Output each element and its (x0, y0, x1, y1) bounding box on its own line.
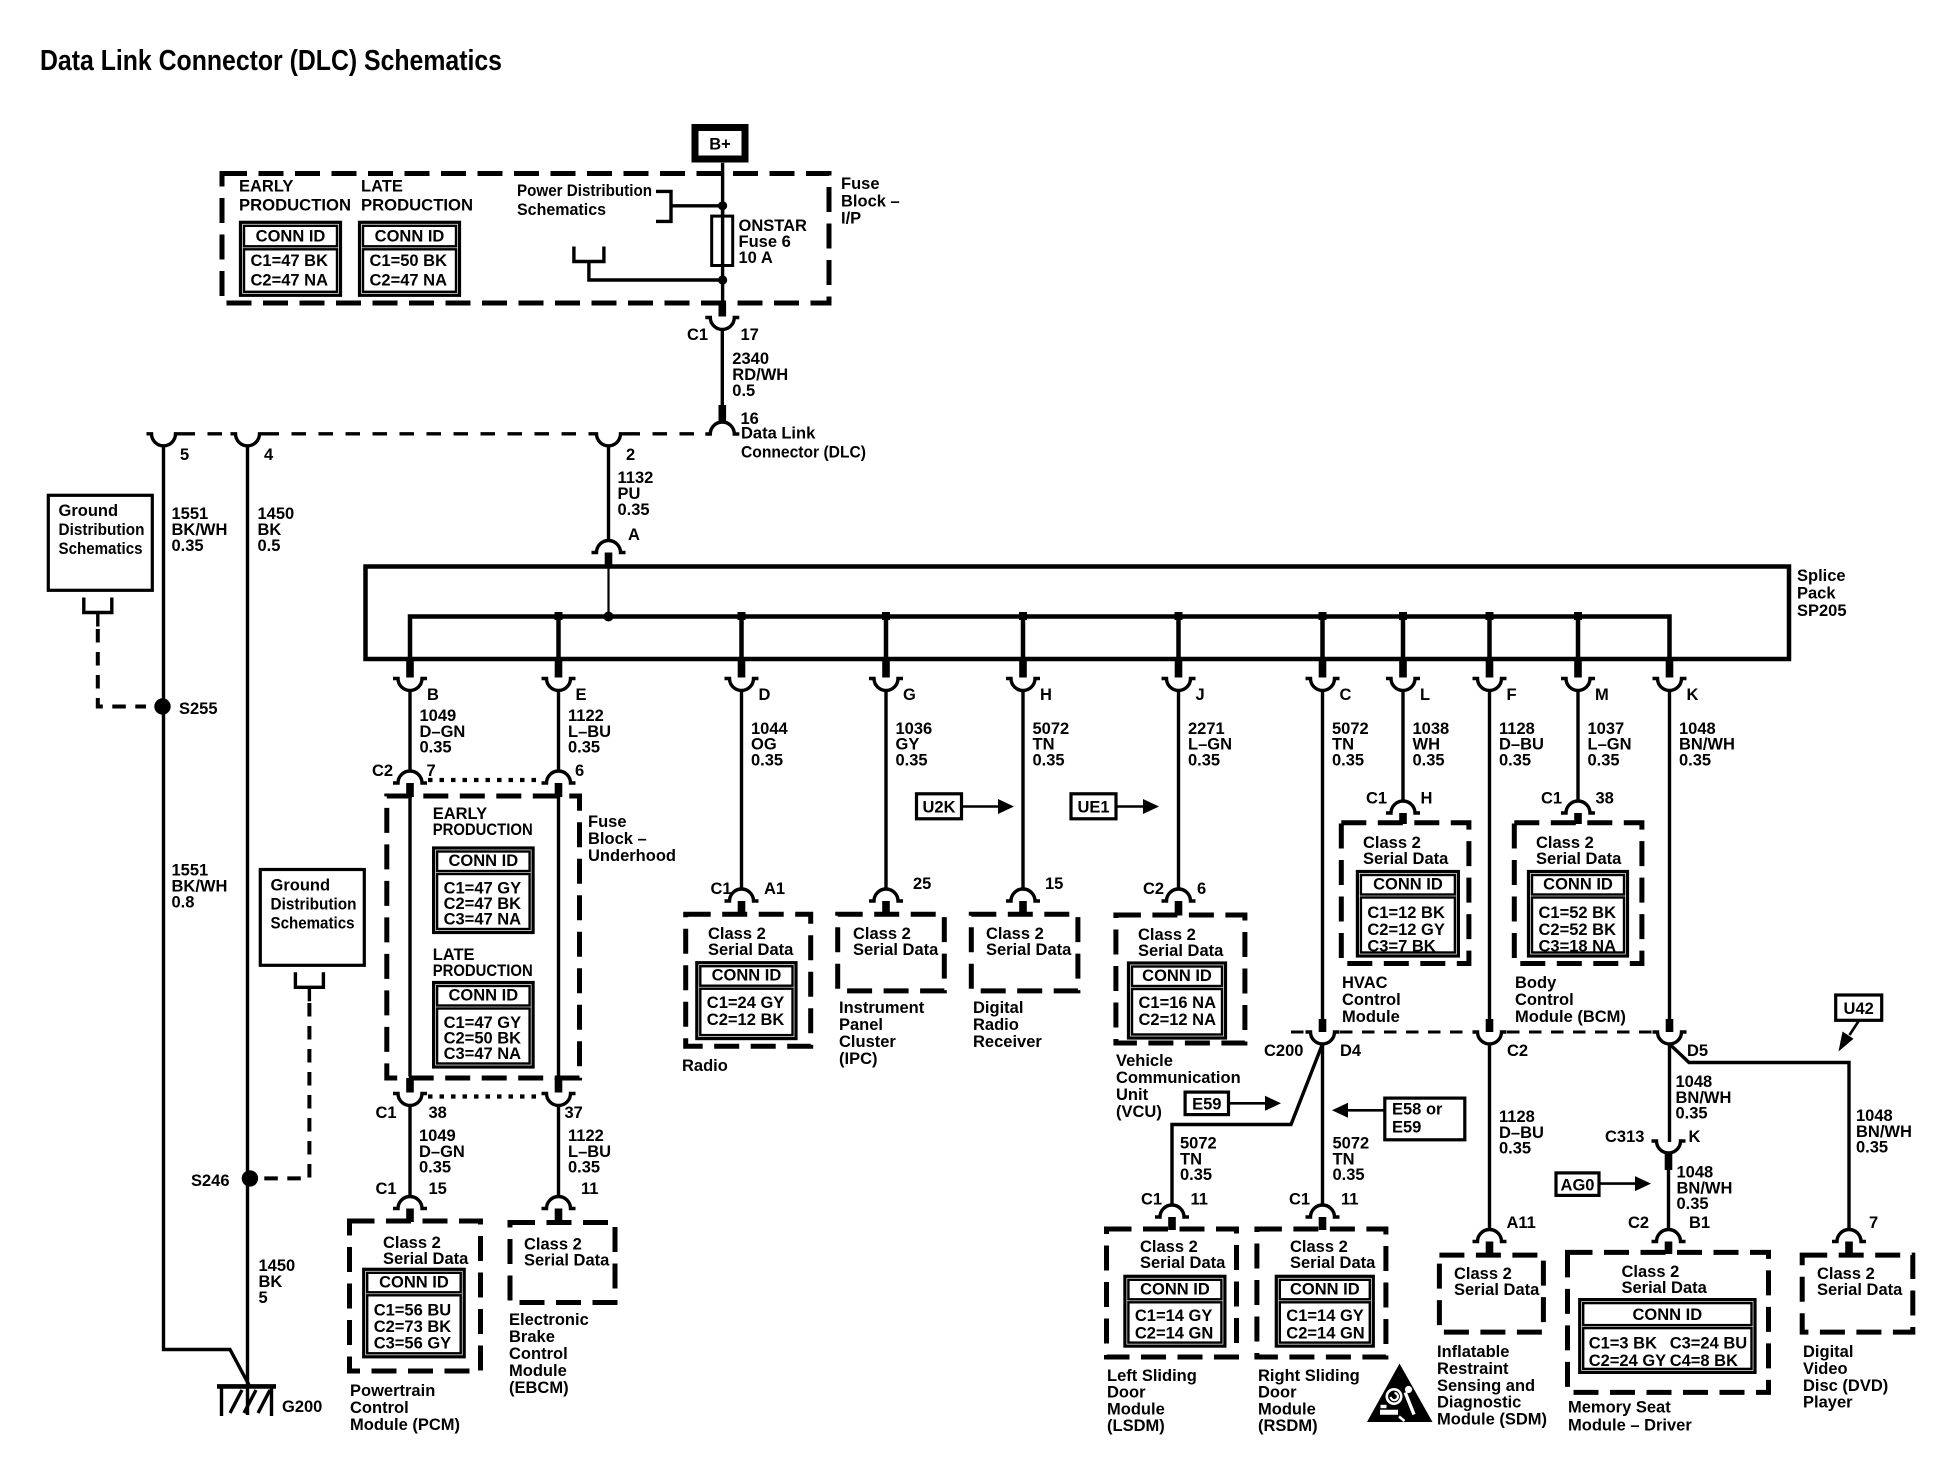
splice pack terminal H (1021, 617, 1026, 660)
svg-text:Disc (DVD): Disc (DVD) (1803, 1377, 1888, 1395)
svg-text:D4: D4 (1340, 1042, 1362, 1060)
svg-text:Module: Module (1342, 1008, 1400, 1026)
off-page bracket (power distribution) (656, 191, 671, 221)
svg-text:Radio: Radio (682, 1057, 728, 1075)
svg-text:Unit: Unit (1116, 1086, 1149, 1104)
svg-text:Cluster: Cluster (839, 1033, 896, 1051)
splice S255 (154, 698, 170, 714)
svg-text:Serial Data: Serial Data (1290, 1254, 1376, 1272)
splice pack bus (410, 617, 1670, 660)
svg-text:0.35: 0.35 (1180, 1166, 1212, 1184)
svg-text:C1=14 GY: C1=14 GY (1135, 1307, 1213, 1325)
connector C1 11 (LSDM) (1155, 1205, 1189, 1217)
svg-text:0.35: 0.35 (1677, 1195, 1709, 1213)
svg-text:Panel: Panel (839, 1016, 883, 1034)
connector A (splice pack) (592, 541, 626, 553)
svg-text:C1: C1 (1141, 1191, 1162, 1209)
svg-text:E58 or: E58 or (1392, 1101, 1443, 1119)
svg-text:B1: B1 (1689, 1214, 1710, 1232)
fuse block I/P dashed box (222, 174, 829, 304)
svg-text:PRODUCTION: PRODUCTION (433, 821, 533, 839)
svg-text:0.35: 0.35 (1188, 751, 1220, 769)
LSDM class 2 serial data box (1107, 1229, 1237, 1357)
svg-text:0.35: 0.35 (1679, 751, 1711, 769)
svg-text:C2=12 BK: C2=12 BK (707, 1011, 785, 1029)
svg-text:D: D (759, 686, 771, 704)
connector pin 6 (fuse block underhood) (542, 771, 576, 783)
svg-text:S255: S255 (179, 700, 218, 718)
wire F down between boxes (1488, 691, 1491, 1020)
svg-text:E: E (576, 686, 587, 704)
connector C2 pin 7 (fuse block underhood) (393, 771, 427, 783)
svg-text:Serial Data: Serial Data (853, 941, 939, 959)
A stub into bus (607, 567, 609, 617)
svg-text:C1=14 GY: C1=14 GY (1286, 1307, 1364, 1325)
svg-text:Inflatable: Inflatable (1437, 1343, 1509, 1361)
svg-text:AG0: AG0 (1561, 1176, 1595, 1194)
svg-text:C3=47 NA: C3=47 NA (444, 910, 522, 928)
svg-text:F: F (1507, 686, 1517, 704)
svg-text:(RSDM): (RSDM) (1258, 1417, 1318, 1435)
svg-text:Distribution: Distribution (59, 521, 145, 539)
svg-text:Right Sliding: Right Sliding (1258, 1367, 1360, 1385)
svg-text:C2=47 NA: C2=47 NA (251, 272, 329, 290)
svg-text:0.5: 0.5 (258, 537, 281, 555)
svg-text:C3=7 BK: C3=7 BK (1367, 938, 1435, 956)
svg-text:Module: Module (1258, 1400, 1316, 1418)
wire 1551 BK/WH 0.35 (pin 5) (164, 446, 250, 1385)
svg-text:(VCU): (VCU) (1116, 1103, 1162, 1121)
svg-text:HVAC: HVAC (1342, 974, 1388, 992)
svg-text:0.35: 0.35 (568, 739, 600, 757)
svg-text:PRODUCTION: PRODUCTION (361, 197, 473, 215)
wire H to DRR (1021, 691, 1024, 890)
svg-text:4: 4 (264, 446, 274, 464)
svg-text:C313: C313 (1605, 1128, 1644, 1146)
E59 reference box and arrow (1185, 1092, 1228, 1115)
svg-text:Door: Door (1258, 1384, 1297, 1402)
svg-text:C1=24 GY: C1=24 GY (707, 994, 785, 1012)
connector A11 (SDM) (1473, 1230, 1507, 1242)
svg-text:Restraint: Restraint (1437, 1360, 1509, 1378)
svg-text:Schematics: Schematics (517, 201, 606, 219)
connector C2 (SDM drop) (1486, 1019, 1494, 1032)
svg-text:CONN ID: CONN ID (712, 967, 782, 985)
svg-text:C2: C2 (1628, 1214, 1649, 1232)
svg-text:0.35: 0.35 (419, 1159, 451, 1177)
svg-text:B: B (427, 686, 439, 704)
svg-text:K: K (1689, 1128, 1701, 1146)
CONN ID table (LSDM) (1125, 1276, 1225, 1346)
svg-text:0.5: 0.5 (732, 382, 755, 400)
svg-text:Player: Player (1803, 1394, 1853, 1412)
splice S246 (242, 1170, 258, 1186)
svg-text:Control: Control (509, 1345, 568, 1363)
wire K down (1668, 691, 1671, 1020)
svg-text:Fuse: Fuse (588, 813, 627, 831)
svg-text:0.35: 0.35 (1499, 1140, 1531, 1158)
splice pack terminal D (739, 617, 744, 660)
off-page bracket under box (295, 972, 323, 987)
svg-text:CONN ID: CONN ID (1290, 1280, 1360, 1298)
svg-text:17: 17 (741, 326, 759, 344)
connector C200 D4 (1319, 1019, 1327, 1032)
svg-text:0.35: 0.35 (1856, 1139, 1888, 1157)
EBCM class 2 serial data box (510, 1223, 615, 1303)
svg-text:C2: C2 (1507, 1042, 1528, 1060)
svg-text:CONN ID: CONN ID (1142, 967, 1212, 985)
svg-text:Module: Module (509, 1362, 567, 1380)
splice pack terminal J (1176, 617, 1181, 660)
svg-text:H: H (1040, 686, 1052, 704)
svg-text:Vehicle: Vehicle (1116, 1052, 1173, 1070)
wire 1450 BK 0.5 (pin 4) (246, 446, 249, 1386)
svg-text:CONN ID: CONN ID (1140, 1280, 1210, 1298)
svg-text:Underhood: Underhood (588, 847, 676, 865)
svg-text:C1=47 BK: C1=47 BK (251, 252, 329, 270)
svg-text:Fuse: Fuse (841, 175, 880, 193)
DLC pin 4 (231, 434, 265, 446)
splice pack terminal B (406, 659, 414, 678)
svg-text:E59: E59 (1392, 1119, 1421, 1137)
svg-text:Serial Data: Serial Data (708, 941, 794, 959)
svg-text:Body: Body (1515, 974, 1557, 992)
svg-text:Schematics: Schematics (271, 915, 355, 933)
wire C to C200-D4 (1321, 691, 1324, 1020)
svg-text:0.35: 0.35 (1332, 751, 1364, 769)
junction dot (718, 275, 727, 284)
wire 1048 BN/WH 0.35 (D5 to C313) (1668, 1044, 1671, 1142)
svg-text:C3=24 BU: C3=24 BU (1670, 1335, 1748, 1353)
svg-text:Diagnostic: Diagnostic (1437, 1394, 1521, 1412)
svg-text:H: H (1421, 790, 1433, 808)
svg-text:C1: C1 (1289, 1191, 1310, 1209)
svg-text:Module (SDM): Module (SDM) (1437, 1411, 1547, 1429)
svg-text:Serial Data: Serial Data (383, 1250, 469, 1268)
svg-text:Serial Data: Serial Data (524, 1252, 610, 1270)
DRR class 2 serial data box (971, 914, 1078, 991)
wire bracket to fuse top (671, 204, 723, 207)
svg-text:C1=12 BK: C1=12 BK (1367, 904, 1445, 922)
connector pin 37 (underhood out) (555, 1078, 563, 1093)
svg-text:A: A (628, 526, 640, 544)
svg-text:C1: C1 (1366, 790, 1387, 808)
svg-text:C1=16 NA: C1=16 NA (1139, 994, 1217, 1012)
connector pin 7 (DVD) (1832, 1230, 1866, 1242)
connector C1 A1 (radio) (725, 889, 759, 901)
svg-text:C1=52 BK: C1=52 BK (1539, 904, 1617, 922)
svg-text:Communication: Communication (1116, 1069, 1241, 1087)
svg-text:C: C (1340, 686, 1352, 704)
svg-text:Serial Data: Serial Data (986, 941, 1072, 959)
DLC connector dashed line (181, 432, 231, 435)
svg-text:U2K: U2K (922, 799, 955, 817)
splice pack terminal M (1576, 617, 1581, 660)
svg-text:0.35: 0.35 (1413, 751, 1445, 769)
RSDM class 2 serial data box (1257, 1229, 1386, 1357)
wire B+ to fuse (721, 163, 724, 217)
U2K reference box and arrow (917, 794, 962, 819)
ground distribution schematics box (lower) (260, 870, 364, 966)
svg-text:C1=3 BK: C1=3 BK (1589, 1335, 1657, 1353)
svg-text:A1: A1 (764, 880, 785, 898)
connector C2 pin 6 (VCU) (1162, 889, 1196, 901)
svg-text:Module (PCM): Module (PCM) (350, 1416, 460, 1434)
svg-text:Schematics: Schematics (59, 540, 143, 558)
svg-text:C1: C1 (711, 880, 732, 898)
svg-text:CONN ID: CONN ID (449, 852, 519, 870)
svg-text:Serial Data: Serial Data (1817, 1281, 1903, 1299)
svg-text:C2=12 GY: C2=12 GY (1367, 921, 1445, 939)
svg-text:0.35: 0.35 (1676, 1105, 1708, 1123)
svg-text:Radio: Radio (973, 1016, 1019, 1034)
svg-text:C1=56 BU: C1=56 BU (374, 1302, 452, 1320)
splice pack terminal G (884, 617, 889, 660)
svg-text:11: 11 (1191, 1191, 1208, 1209)
svg-text:2: 2 (626, 446, 635, 464)
svg-text:(EBCM): (EBCM) (509, 1379, 569, 1397)
connector face C2 dotted line (428, 778, 540, 782)
svg-text:0.35: 0.35 (751, 751, 783, 769)
svg-text:C3=56 GY: C3=56 GY (374, 1334, 452, 1352)
svg-text:Brake: Brake (509, 1328, 555, 1346)
wire 2340 RD/WH 0.5 (721, 330, 724, 424)
svg-text:Control: Control (350, 1399, 409, 1417)
splice pack SP205 box (366, 567, 1790, 660)
svg-text:A11: A11 (1507, 1214, 1536, 1232)
svg-text:Control: Control (1515, 991, 1574, 1009)
svg-text:Door: Door (1107, 1384, 1146, 1402)
svg-text:EARLY: EARLY (239, 178, 293, 196)
svg-text:S246: S246 (191, 1172, 230, 1190)
svg-text:LATE: LATE (361, 178, 403, 196)
DVD class 2 serial data box (1802, 1255, 1913, 1332)
svg-text:J: J (1196, 686, 1205, 704)
power node B+ (695, 128, 745, 160)
splice pack terminal L (1401, 617, 1406, 660)
svg-text:7: 7 (427, 762, 436, 780)
svg-text:C1: C1 (1541, 790, 1562, 808)
svg-text:C2: C2 (372, 762, 393, 780)
svg-text:6: 6 (575, 762, 584, 780)
svg-text:Module – Driver: Module – Driver (1568, 1417, 1692, 1435)
SDM class 2 serial data box (1439, 1255, 1543, 1332)
wire B to C2-7 (408, 691, 411, 772)
svg-text:Block –: Block – (841, 192, 900, 210)
svg-text:C3=18 NA: C3=18 NA (1539, 938, 1617, 956)
svg-text:Video: Video (1803, 1360, 1848, 1378)
CONN ID table (VCU) (1129, 963, 1226, 1038)
CONN ID table (early production, underhood) (434, 848, 533, 933)
svg-text:B+: B+ (709, 136, 731, 154)
CONN ID table (memory seat) (1580, 1300, 1755, 1373)
svg-text:0.35: 0.35 (420, 739, 452, 757)
svg-text:Serial Data: Serial Data (1363, 850, 1449, 868)
connector C2 B1 (memory seat) (1652, 1230, 1686, 1242)
svg-text:5: 5 (180, 446, 189, 464)
svg-text:C2: C2 (1143, 880, 1164, 898)
connector C1 pin 17 (719, 303, 727, 317)
off-page bracket under box (84, 598, 112, 613)
svg-text:Electronic: Electronic (509, 1311, 589, 1329)
svg-text:C2=52 BK: C2=52 BK (1539, 921, 1617, 939)
connector pin 25 (IPC) (869, 889, 903, 901)
svg-text:M: M (1595, 686, 1609, 704)
svg-text:C2=24 GY: C2=24 GY (1589, 1352, 1667, 1370)
svg-text:G200: G200 (282, 1398, 322, 1416)
BCM class 2 serial data box (1514, 823, 1642, 964)
svg-text:E59: E59 (1192, 1096, 1221, 1114)
wire 1132 PU 0.35 (607, 446, 610, 541)
wire 5072 TN 0.35 (to LSDM) (1172, 1044, 1323, 1205)
svg-text:5: 5 (259, 1289, 268, 1307)
wire G to IPC (884, 691, 887, 890)
splice pack terminal F (1487, 617, 1492, 660)
svg-text:CONN ID: CONN ID (256, 227, 326, 245)
svg-text:CONN ID: CONN ID (379, 1273, 449, 1291)
CONN ID table (radio) (697, 963, 796, 1039)
svg-text:11: 11 (1341, 1191, 1358, 1209)
svg-text:C1: C1 (376, 1180, 397, 1198)
svg-text:38: 38 (429, 1104, 447, 1122)
svg-text:Digital: Digital (973, 999, 1023, 1017)
IPC class 2 serial data box (838, 914, 945, 991)
AG0 reference box and arrow (1556, 1173, 1599, 1196)
svg-text:C1=50 BK: C1=50 BK (370, 252, 448, 270)
svg-text:SP205: SP205 (1797, 602, 1847, 620)
svg-text:Digital: Digital (1803, 1343, 1853, 1361)
connector C1 pin 38 (underhood out) (406, 1078, 414, 1093)
svg-text:C1: C1 (376, 1104, 397, 1122)
svg-text:CONN ID: CONN ID (1543, 876, 1613, 894)
svg-text:Serial Data: Serial Data (1536, 850, 1622, 868)
svg-text:Connector (DLC): Connector (DLC) (741, 444, 866, 462)
svg-text:15: 15 (429, 1180, 447, 1198)
PCM class 2 serial data box (350, 1221, 481, 1371)
ground G200 (217, 1384, 276, 1389)
svg-text:(LSDM): (LSDM) (1107, 1417, 1165, 1435)
svg-text:Splice: Splice (1797, 567, 1846, 585)
svg-text:C2=12 NA: C2=12 NA (1139, 1011, 1217, 1029)
svg-text:15: 15 (1045, 875, 1063, 893)
svg-text:C3=47 NA: C3=47 NA (444, 1045, 522, 1063)
wire 1122 L-BU 0.35 (to EBCM) (557, 1106, 560, 1197)
DLC pin 5 (147, 434, 181, 446)
DLC pin 2 (592, 434, 626, 446)
svg-text:Distribution: Distribution (271, 896, 357, 914)
svg-text:Block –: Block – (588, 830, 647, 848)
connector C1 pin 15 (PCM) (393, 1197, 427, 1209)
wire bracket to fuse bottom (589, 262, 723, 281)
svg-text:D5: D5 (1687, 1042, 1708, 1060)
dashed link to S246 (262, 1003, 309, 1178)
svg-text:Ground: Ground (271, 877, 331, 895)
svg-text:37: 37 (565, 1104, 583, 1122)
fuse block underhood dashed box (387, 796, 580, 1078)
svg-text:C2=14 GN: C2=14 GN (1286, 1325, 1364, 1343)
connector C1 H (HVAC) (1386, 801, 1420, 813)
svg-text:0.35: 0.35 (618, 501, 650, 519)
SDM warning triangle (1367, 1364, 1433, 1423)
svg-text:L: L (1420, 686, 1430, 704)
connector C1 11 (RSDM) (1306, 1205, 1340, 1217)
radio class 2 serial data box (686, 914, 811, 1046)
svg-text:Power Distribution: Power Distribution (517, 182, 652, 200)
svg-text:CONN ID: CONN ID (375, 227, 445, 245)
fuse ONSTAR Fuse 6 10A (721, 206, 724, 303)
svg-text:(IPC): (IPC) (839, 1050, 878, 1068)
svg-text:25: 25 (913, 875, 931, 893)
svg-text:C2=14 GN: C2=14 GN (1135, 1325, 1213, 1343)
svg-text:UE1: UE1 (1077, 799, 1109, 817)
svg-text:38: 38 (1596, 790, 1614, 808)
dashed link to S255 (98, 629, 146, 707)
connector pin 15 (DRR) (1006, 889, 1040, 901)
wire 1128 D-BU 0.35 (to SDM) (1488, 1044, 1491, 1230)
VCU class 2 serial data box (1116, 915, 1245, 1043)
svg-text:CONN ID: CONN ID (1633, 1306, 1703, 1324)
svg-text:C1: C1 (687, 326, 708, 344)
memory seat class 2 serial data box (1568, 1252, 1769, 1392)
CONN ID table (early production, I/P) (241, 222, 341, 295)
connector C313 K (1652, 1141, 1686, 1153)
connector pin 11 (EBCM) (542, 1197, 576, 1209)
svg-text:Data Link: Data Link (741, 425, 816, 443)
splice pack terminal C (1320, 617, 1325, 660)
svg-text:0.35: 0.35 (1588, 751, 1620, 769)
svg-text:Instrument: Instrument (839, 999, 925, 1017)
wires inside underhood box (408, 797, 411, 1076)
svg-text:7: 7 (1869, 1214, 1878, 1232)
wire J to VCU (1177, 691, 1180, 890)
svg-text:0.35: 0.35 (896, 751, 928, 769)
svg-text:U42: U42 (1844, 1000, 1874, 1018)
ground distribution schematics box (upper) (48, 495, 152, 590)
svg-text:0.35: 0.35 (568, 1159, 600, 1177)
svg-text:G: G (903, 686, 916, 704)
svg-text:Module (BCM): Module (BCM) (1515, 1008, 1626, 1026)
svg-text:Ground: Ground (59, 502, 119, 520)
CONN ID table (RSDM) (1276, 1276, 1373, 1346)
svg-text:PRODUCTION: PRODUCTION (433, 962, 533, 980)
svg-text:Serial Data: Serial Data (1622, 1279, 1708, 1297)
off-page bracket (lower, ground side) (574, 247, 604, 262)
svg-text:C2=73 BK: C2=73 BK (374, 1318, 452, 1336)
E58 or E59 reference box and arrow (1385, 1098, 1465, 1140)
CONN ID table (late production, I/P) (360, 222, 460, 295)
svg-text:0.35: 0.35 (172, 537, 204, 555)
svg-text:Pack: Pack (1797, 585, 1836, 603)
svg-text:6: 6 (1197, 880, 1206, 898)
wire 1048 BN/WH 0.35 (C313 to memory seat) (1667, 1170, 1670, 1230)
svg-text:CONN ID: CONN ID (1373, 876, 1443, 894)
wire D to radio (740, 691, 743, 890)
svg-text:Serial Data: Serial Data (1140, 1254, 1226, 1272)
svg-text:Memory Seat: Memory Seat (1568, 1399, 1671, 1417)
svg-text:Receiver: Receiver (973, 1033, 1042, 1051)
wire M to BCM (1576, 691, 1579, 802)
UE1 reference box and arrow (1071, 794, 1116, 819)
svg-text:CONN ID: CONN ID (449, 987, 519, 1005)
connector face C200 dashed line (1291, 1031, 1305, 1034)
svg-text:Serial Data: Serial Data (1138, 942, 1224, 960)
svg-text:Serial Data: Serial Data (1454, 1281, 1540, 1299)
splice pack terminal K (1666, 659, 1674, 678)
svg-text:0.35: 0.35 (1499, 751, 1531, 769)
HVAC class 2 serial data box (1341, 823, 1469, 964)
svg-text:Data Link Connector (DLC) Sche: Data Link Connector (DLC) Schematics (40, 45, 502, 77)
splice pack terminal E (556, 617, 561, 660)
